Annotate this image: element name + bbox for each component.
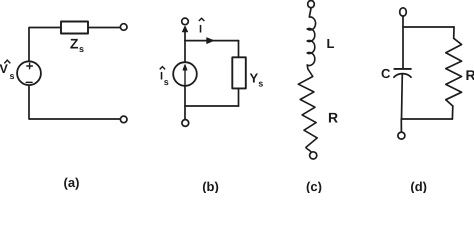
wire bottom rail of (b) (185, 105, 239, 107)
wire left branch of (b) (184, 31, 186, 62)
arrowhead current right on top rail of (b) (207, 38, 214, 44)
wire right branch upper of (d) (453, 27, 455, 38)
svg-text:V: V (0, 62, 9, 76)
wire right branch lower of (b) (238, 88, 240, 106)
voltage source Vs (17, 61, 41, 85)
terminal bottom-right of (a) (120, 116, 127, 123)
svg-text:(b): (b) (202, 179, 219, 193)
svg-text:(c): (c) (306, 179, 322, 193)
resistor R of (d) zigzag (446, 38, 462, 106)
admittance-box Ys (232, 57, 246, 88)
label Vs hat (4, 60, 10, 63)
label I hat (top of b) (199, 18, 205, 21)
wire stub above bottom terminal of (d) (400, 119, 402, 132)
svg-text:s: s (164, 77, 169, 87)
svg-text:R: R (328, 110, 338, 126)
wire top rail of (b) (185, 40, 239, 42)
minus sign of Vs (26, 81, 32, 83)
svg-text:Y: Y (250, 71, 259, 86)
svg-text:L: L (327, 36, 335, 51)
svg-text:(a): (a) (64, 175, 80, 190)
terminal top of (d) (400, 8, 407, 16)
wire left branch upper of (d) (402, 16, 404, 68)
terminal bottom of (b) (182, 120, 189, 127)
resistor R of (c) zigzag (298, 69, 317, 152)
svg-text:R: R (466, 67, 474, 83)
terminal bottom of (c) (310, 152, 317, 159)
label Is hat (160, 67, 165, 70)
wire stub below top terminal of (c) (309, 8, 311, 17)
resistor-box Zs (61, 22, 88, 34)
svg-text:I: I (160, 71, 163, 83)
arrowhead current up at top of (b) (182, 26, 187, 32)
svg-text:s: s (79, 44, 84, 54)
svg-text:s: s (258, 79, 263, 89)
wire top rail of (a) (29, 28, 120, 62)
current source Is (173, 62, 197, 86)
plus sign of Vs (27, 63, 33, 69)
svg-text:(d): (d) (410, 179, 427, 193)
wire top rail of (d) (403, 26, 454, 28)
svg-text:C: C (381, 66, 391, 81)
terminal top of (c) (308, 1, 315, 8)
svg-text:I: I (199, 24, 202, 36)
arrow inside current source (184, 69, 186, 85)
terminal top of (b) (182, 18, 189, 25)
inductor L (307, 17, 315, 69)
terminal bottom of (d) (398, 132, 405, 139)
wire below capacitor (401, 74, 404, 119)
svg-text:Z: Z (70, 36, 79, 52)
wire bottom rail of (a) (29, 85, 120, 119)
wire below current source (184, 86, 186, 119)
terminal top-right of (a) (120, 24, 127, 31)
svg-text:s: s (10, 71, 15, 81)
capacitor C top plate (394, 68, 411, 70)
wire right branch lower of (d) (451, 106, 453, 119)
wire right branch upper of (b) (238, 41, 240, 58)
wire bottom rail of (d) (401, 118, 452, 120)
capacitor C curved bottom plate (394, 74, 411, 78)
